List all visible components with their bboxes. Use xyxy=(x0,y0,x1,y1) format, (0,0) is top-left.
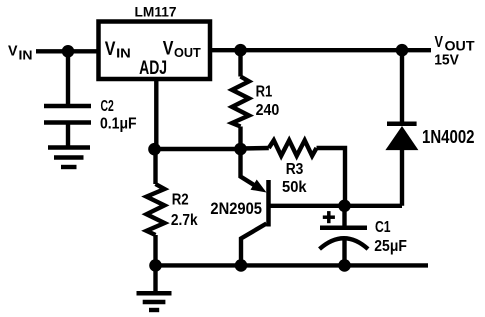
node A junction (R1/R3/emitter) xyxy=(234,143,247,156)
svg-text:OUT: OUT xyxy=(174,45,201,60)
capacitor C1 xyxy=(320,206,369,266)
svg-text:2.7k: 2.7k xyxy=(171,212,198,229)
svg-text:1N4002: 1N4002 xyxy=(422,126,475,147)
node rail collector junction xyxy=(235,259,248,272)
svg-text:25μF: 25μF xyxy=(374,238,407,255)
svg-text:V: V xyxy=(163,37,174,59)
label C1 plus sign xyxy=(323,211,335,223)
svg-text:R3: R3 xyxy=(286,161,304,178)
wire regulator output to VOUT terminal xyxy=(210,48,431,52)
transistor Q1 2N2905 xyxy=(241,152,269,265)
label R2 value xyxy=(171,191,198,229)
regulator U1 LM117 box xyxy=(99,22,211,80)
node VIN input label xyxy=(8,43,33,63)
ground (below C2) xyxy=(48,148,90,168)
node output junction (R1) xyxy=(234,44,247,57)
wire bottom rail xyxy=(153,263,428,267)
wire adj node horizontal xyxy=(155,147,240,151)
node VOUT terminal label xyxy=(434,34,475,69)
node rail C1 junction xyxy=(338,259,351,272)
svg-text:R2: R2 xyxy=(172,191,189,208)
ground (below rail) xyxy=(137,265,172,310)
wire base line to node B and diode xyxy=(269,204,403,208)
label R3 value xyxy=(282,161,307,196)
collector wire xyxy=(241,224,267,266)
node rail left junction xyxy=(149,259,162,272)
svg-text:15V: 15V xyxy=(434,52,459,69)
svg-text:V: V xyxy=(105,38,116,60)
svg-text:2N2905: 2N2905 xyxy=(210,200,262,218)
resistor R3 xyxy=(241,140,346,206)
label C2 value xyxy=(100,98,137,133)
node diode junction xyxy=(396,44,409,57)
bar xyxy=(266,180,271,227)
diode D1 1N4002 xyxy=(385,50,418,206)
label C1 value xyxy=(374,219,407,255)
svg-text:C1: C1 xyxy=(375,219,391,236)
node B junction xyxy=(338,200,351,213)
pin VOUT label xyxy=(163,37,201,59)
wire VIN to regulator input xyxy=(36,49,98,53)
svg-text:240: 240 xyxy=(256,102,280,119)
emitter wire with arrow xyxy=(241,152,259,188)
resistor R2 xyxy=(147,149,165,265)
wire input junction down to C2 xyxy=(66,51,70,104)
node ADJ junction xyxy=(148,143,161,156)
svg-text:LM117: LM117 xyxy=(135,5,177,20)
svg-text:50k: 50k xyxy=(282,179,307,196)
wire ADJ pin down to adj node xyxy=(154,79,158,149)
label R1 value xyxy=(256,84,280,119)
resistor R1 xyxy=(232,50,249,149)
capacitor C2 xyxy=(44,106,91,148)
svg-text:ADJ: ADJ xyxy=(139,57,167,79)
pin VIN label xyxy=(105,38,131,60)
svg-text:V: V xyxy=(435,34,444,51)
svg-text:C2: C2 xyxy=(101,98,114,115)
node input junction xyxy=(62,45,75,58)
svg-text:IN: IN xyxy=(116,46,131,61)
svg-text:V: V xyxy=(8,43,18,60)
svg-text:R1: R1 xyxy=(256,84,273,101)
svg-text:IN: IN xyxy=(19,49,33,63)
svg-text:0.1μF: 0.1μF xyxy=(100,115,137,132)
